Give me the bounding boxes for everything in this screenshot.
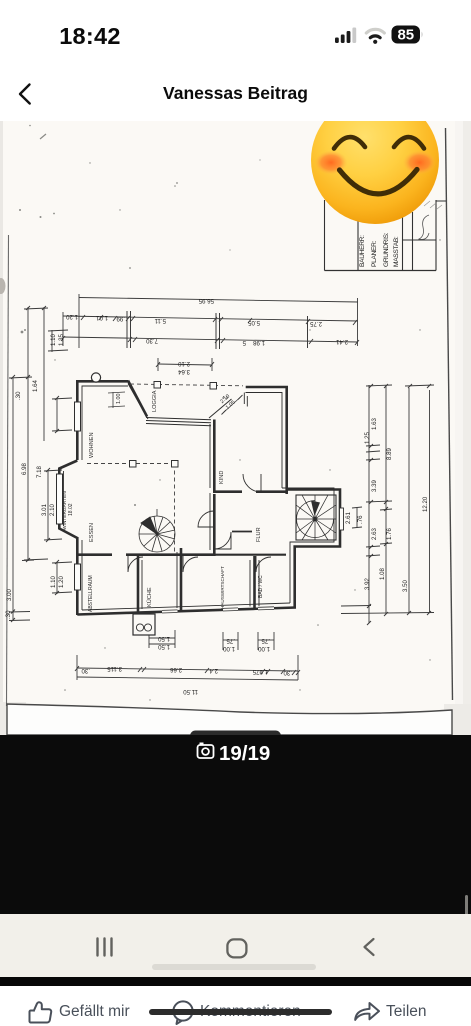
paper corner tick top-left <box>40 134 46 139</box>
sheet bottom border <box>7 704 452 735</box>
svg-text:BAUHERR:: BAUHERR: <box>359 235 366 267</box>
svg-text:ABSTELLRAUM: ABSTELLRAUM <box>88 575 94 612</box>
scattered speckles <box>19 125 441 701</box>
dashed gallery rectangle <box>87 464 177 554</box>
title block labels <box>359 232 400 267</box>
svg-text:.75: .75 <box>226 637 235 644</box>
svg-text:1.98: 1.98 <box>253 339 265 346</box>
inner parallel thin wall lines <box>64 386 335 610</box>
svg-text:11.50: 11.50 <box>183 688 198 695</box>
svg-text:5.11: 5.11 <box>154 317 166 324</box>
svg-text:1.63: 1.63 <box>371 418 378 430</box>
svg-text:1.10: 1.10 <box>50 576 57 588</box>
nav: back chevron <box>360 937 378 957</box>
svg-text:.30: .30 <box>5 610 12 619</box>
svg-text:12.20: 12.20 <box>422 496 429 512</box>
window sills in bottom wall <box>162 606 274 615</box>
svg-text:1.50: 1.50 <box>158 635 170 642</box>
KIND bottom wall <box>213 490 242 493</box>
corridor top wall right of KIND door <box>256 490 288 493</box>
spiral staircase square (top right) <box>296 495 344 540</box>
column circle top-left <box>91 373 100 382</box>
nav: recents ||| <box>95 937 117 957</box>
sub dimension above loggia <box>158 364 212 365</box>
svg-text:1.00: 1.00 <box>223 645 235 652</box>
svg-text:.30: .30 <box>81 667 90 674</box>
svg-text:7.30: 7.30 <box>146 337 158 344</box>
svg-text:1.35: 1.35 <box>58 334 65 346</box>
emoji sticker <box>311 96 439 224</box>
loggia railing <box>128 384 232 426</box>
eyes <box>334 137 365 148</box>
bottom action bar <box>0 986 471 1025</box>
left chain labels (rotated) <box>5 334 65 619</box>
camera icon + 19/19 counter <box>196 740 286 766</box>
svg-text:1.20: 1.20 <box>66 313 78 320</box>
smile <box>340 170 418 194</box>
paper background <box>0 121 471 735</box>
chimney with two circles <box>133 614 155 635</box>
flur upper walls <box>232 531 252 533</box>
svg-text:FLUR: FLUR <box>256 527 262 542</box>
svg-text:1.00: 1.00 <box>116 394 122 405</box>
photo counter pill top part <box>190 731 281 742</box>
photo area with scanned floor plan <box>0 121 471 735</box>
svg-text:3.115: 3.115 <box>107 665 122 672</box>
svg-text:1.64: 1.64 <box>32 380 39 392</box>
svg-text:4 x: 4 x <box>222 395 229 400</box>
top chain labels (upside down) <box>66 297 348 375</box>
outer walls <box>59 381 340 616</box>
right chain labels <box>345 418 429 592</box>
header back chevron <box>14 80 38 108</box>
svg-text:2.66: 2.66 <box>170 666 182 673</box>
svg-text:56.95: 56.95 <box>198 297 214 304</box>
corridor bottom / rooms top wall <box>77 553 214 556</box>
svg-text:.76: .76 <box>357 515 364 524</box>
svg-text:2.75: 2.75 <box>310 320 322 327</box>
svg-text:WOHNEN: WOHNEN <box>89 433 95 458</box>
svg-text:LOGGIA: LOGGIA <box>152 390 158 412</box>
KIND left wall <box>213 420 216 494</box>
svg-text:2.10: 2.10 <box>49 504 56 516</box>
svg-text:3.39: 3.39 <box>371 480 378 492</box>
svg-text:3.01: 3.01 <box>41 504 48 516</box>
svg-text:2.10: 2.10 <box>178 360 190 367</box>
svg-text:3.92: 3.92 <box>364 578 371 590</box>
svg-text:19/19: 19/19 <box>219 742 270 765</box>
svg-text:5.05: 5.05 <box>248 319 260 326</box>
title block <box>325 200 447 271</box>
sheet left border <box>7 235 9 706</box>
svg-text:1.20: 1.20 <box>58 576 65 588</box>
svg-text:KÜCHE: KÜCHE <box>146 587 153 607</box>
svg-text:.30: .30 <box>283 669 292 676</box>
svg-text:GRUNDRIS:: GRUNDRIS: <box>383 232 390 267</box>
right edge shading <box>463 121 471 735</box>
battery <box>392 26 421 44</box>
wifi <box>366 29 384 44</box>
bottom chain labels (upside down) <box>81 635 292 695</box>
share arrow + Teilen <box>352 999 382 1025</box>
svg-text:1.975: 1.975 <box>252 668 268 675</box>
like: thumbs up + Gefällt mir <box>28 999 54 1025</box>
svg-text:3.50: 3.50 <box>402 580 409 592</box>
nav: home squircle <box>226 938 248 959</box>
svg-text:ESSEN: ESSEN <box>89 523 95 542</box>
svg-text:2.4: 2.4 <box>209 667 218 674</box>
blush <box>315 151 348 175</box>
small dims near loggia and kind chamfer <box>116 394 237 411</box>
svg-text:1.76: 1.76 <box>386 528 393 540</box>
room partitions <box>137 556 140 613</box>
diagonal tick marks on chains <box>61 311 359 349</box>
svg-text:BAD / WC: BAD / WC <box>258 575 264 598</box>
strikethrough line over comment <box>149 1009 332 1015</box>
svg-text:HAUSWIRTSCHAFT: HAUSWIRTSCHAFT <box>220 566 225 609</box>
svg-text:.99: .99 <box>116 315 125 322</box>
svg-text:.75: .75 <box>261 637 270 644</box>
svg-text:3.64: 3.64 <box>178 368 190 375</box>
round spiral staircase (center) <box>139 509 175 552</box>
svg-text:1.00: 1.00 <box>258 645 270 652</box>
android nav bar <box>0 914 471 977</box>
svg-text:KIND: KIND <box>219 471 225 484</box>
svg-text:1.01: 1.01 <box>96 314 108 321</box>
scrollbar remnant <box>465 895 468 932</box>
svg-text:6.98: 6.98 <box>21 463 28 475</box>
left edge shading <box>0 121 3 735</box>
door arcs <box>128 474 271 572</box>
comment bubble + Kommentieren <box>171 1000 197 1026</box>
svg-text:85: 85 <box>397 27 414 44</box>
svg-text:PLANER:: PLANER: <box>371 240 378 267</box>
svg-text:1.08: 1.08 <box>379 568 386 580</box>
svg-text:1.50: 1.50 <box>158 643 170 650</box>
room labels <box>62 390 264 612</box>
windows: left wall wohnen <box>57 402 81 590</box>
svg-text:MASSTAB:: MASSTAB: <box>393 236 400 267</box>
home indicator pill <box>152 964 316 971</box>
svg-text:.30: .30 <box>15 391 22 400</box>
sheet right border <box>446 128 453 700</box>
dashed roof line over loggia <box>130 384 243 386</box>
status bar right icons <box>328 20 438 50</box>
svg-text:2.61: 2.61 <box>345 512 352 524</box>
svg-text:2.41: 2.41 <box>336 338 348 345</box>
black strip <box>0 977 471 986</box>
svg-text:1.25: 1.25 <box>364 432 371 444</box>
black area below photo <box>0 735 471 914</box>
bottom corners shading <box>0 702 26 735</box>
svg-text:7.18: 7.18 <box>36 466 43 478</box>
status bar time <box>0 23 180 50</box>
svg-text:1.10: 1.10 <box>50 334 57 346</box>
cellular bars <box>335 28 356 44</box>
svg-text:8.89: 8.89 <box>386 448 393 460</box>
svg-text:3.00: 3.00 <box>6 589 13 601</box>
svg-text:2.63: 2.63 <box>371 528 378 540</box>
header title <box>0 83 471 104</box>
svg-text:18.02: 18.02 <box>68 503 74 516</box>
